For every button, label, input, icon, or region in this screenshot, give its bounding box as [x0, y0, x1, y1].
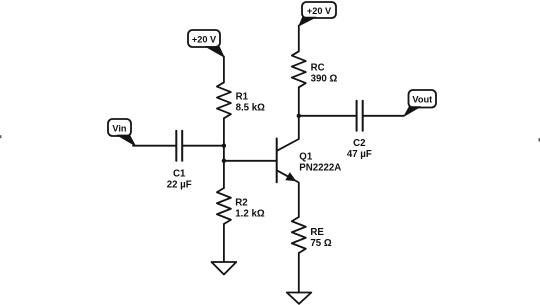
net label +20V (right supply flag)	[299, 2, 336, 26]
svg-text:RC: RC	[311, 63, 325, 74]
svg-text:PN2222A: PN2222A	[299, 162, 341, 173]
ground (below R2)	[212, 262, 237, 275]
capacitor C2	[347, 101, 372, 160]
resistor R1	[217, 82, 265, 118]
net label +20V (left supply flag)	[188, 30, 224, 57]
wire RE bottom to ground	[298, 253, 300, 293]
capacitor C1	[167, 131, 192, 191]
svg-text:Q1: Q1	[299, 152, 313, 163]
svg-text:+20 V: +20 V	[307, 6, 332, 16]
svg-text:47 µF: 47 µF	[347, 149, 372, 160]
resistor RC	[292, 51, 338, 87]
svg-text:75 Ω: 75 Ω	[310, 238, 331, 249]
svg-text:22 µF: 22 µF	[167, 179, 192, 190]
wire from +20V flag to R1 top	[223, 57, 225, 83]
ground (below RE)	[287, 293, 312, 304]
transistor Q1	[277, 116, 342, 217]
wire R1 bottom through base node to R2 top	[223, 118, 225, 188]
svg-text:RE: RE	[310, 227, 324, 238]
wire node B to Q1 base	[224, 160, 276, 162]
edge artifact mark left	[0, 135, 1, 138]
wire C1 right plate to node A	[183, 145, 224, 147]
wire RC bottom to collector node	[298, 87, 300, 116]
wire C2 right plate to Vout	[364, 115, 405, 117]
wire Vin to C1 left plate	[133, 145, 176, 147]
edge artifact mark right	[539, 138, 540, 141]
svg-text:C1: C1	[173, 168, 186, 179]
node C (collector / RC / C2 junction dot)	[297, 114, 301, 118]
wire R2 bottom to ground	[223, 224, 225, 262]
resistor R2	[217, 188, 265, 224]
svg-text:R2: R2	[235, 198, 247, 209]
wire collector node to C2 left plate	[299, 115, 356, 117]
svg-text:8.5 kΩ: 8.5 kΩ	[236, 103, 266, 114]
svg-text:390 Ω: 390 Ω	[311, 74, 338, 85]
svg-text:Vin: Vin	[112, 123, 127, 133]
wire +20V flag to RC top	[298, 26, 300, 52]
net label Vout (output flag)	[404, 90, 436, 116]
svg-text:R1: R1	[236, 92, 249, 103]
svg-text:Vout: Vout	[412, 95, 432, 105]
resistor RE	[292, 217, 332, 253]
node B (base junction dot)	[222, 159, 226, 163]
svg-text:C2: C2	[353, 138, 365, 149]
node A (C1 / R1 junction dot)	[222, 144, 226, 148]
net label Vin (input flag)	[108, 119, 136, 146]
svg-text:+20 V: +20 V	[192, 34, 217, 44]
svg-text:1.2 kΩ: 1.2 kΩ	[235, 209, 265, 220]
